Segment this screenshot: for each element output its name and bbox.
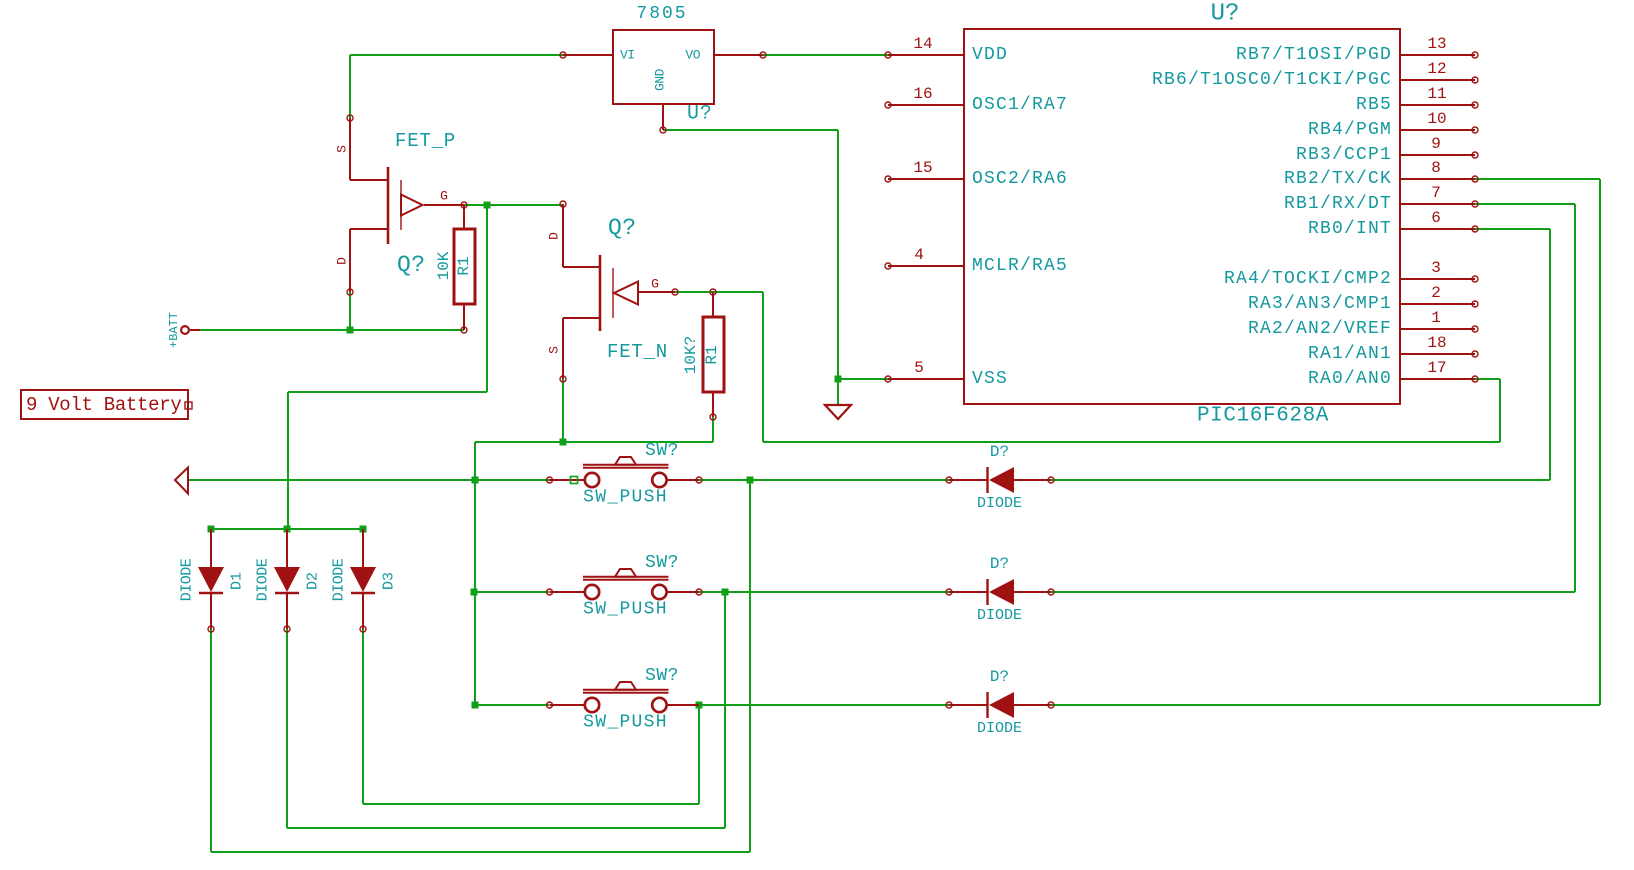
wire: [562, 379, 564, 442]
value PIC16F628A: [1197, 405, 1329, 428]
resistor R1 10K: [454, 205, 475, 333]
wire: [349, 55, 351, 118]
svg-text:DIODE: DIODE: [255, 558, 272, 601]
svg-text:SW_PUSH: SW_PUSH: [583, 488, 668, 508]
wire: [1475, 178, 1600, 180]
wire: [475, 441, 713, 443]
wire: [211, 851, 750, 853]
wire: [1574, 204, 1576, 592]
wire: [286, 629, 288, 828]
svg-text:D: D: [335, 257, 350, 265]
wire: [837, 130, 839, 379]
wire: [663, 129, 838, 131]
svg-text:RB1/RX/DT: RB1/RX/DT: [1284, 194, 1392, 214]
wire: [211, 528, 363, 530]
reference R1: [455, 256, 473, 275]
svg-text:DIODE: DIODE: [179, 558, 196, 601]
svg-text:8: 8: [1431, 159, 1441, 177]
pin 18 RA1/AN1: [1308, 334, 1478, 364]
wire: [474, 442, 476, 705]
svg-text:MCLR/RA5: MCLR/RA5: [972, 256, 1068, 276]
value 10K? (R1): [682, 336, 700, 374]
wire: [699, 479, 949, 481]
svg-text:DIODE: DIODE: [977, 495, 1022, 512]
svg-text:VO: VO: [685, 48, 700, 63]
wire: [486, 205, 488, 392]
pin 11 RB5: [1356, 85, 1478, 115]
value DIODE (D2): [255, 558, 272, 601]
junction: [560, 439, 567, 446]
diode D2: [274, 529, 300, 632]
svg-text:OSC1/RA7: OSC1/RA7: [972, 95, 1068, 115]
value DIODE #3: [977, 720, 1022, 737]
wire: [724, 592, 726, 828]
svg-text:FET_P: FET_P: [395, 130, 456, 152]
svg-text:16: 16: [913, 85, 932, 103]
junction: [484, 202, 491, 209]
svg-text:D: D: [547, 232, 562, 240]
svg-text:S: S: [335, 145, 350, 153]
svg-text:D?: D?: [990, 443, 1009, 461]
wire: [763, 54, 888, 56]
wire: [188, 479, 574, 481]
svg-text:RB2/TX/CK: RB2/TX/CK: [1284, 169, 1392, 189]
reference SW? #1: [645, 441, 679, 461]
reference SW? #2: [645, 553, 679, 573]
pin 16 OSC1/RA7: [885, 85, 1068, 115]
diode D? #2: [946, 579, 1054, 605]
wire: [349, 292, 351, 330]
transistor Q? FET_P: [335, 115, 468, 295]
svg-text:RB4/PGM: RB4/PGM: [1308, 120, 1392, 140]
svg-text:9: 9: [1431, 135, 1441, 153]
wire: [287, 392, 289, 529]
wire: [362, 629, 364, 804]
wire: [1549, 229, 1551, 480]
wire: [1475, 378, 1500, 380]
svg-text:SW_PUSH: SW_PUSH: [583, 713, 668, 733]
wire: [464, 204, 563, 206]
svg-text:RA1/AN1: RA1/AN1: [1308, 344, 1392, 364]
junction: [284, 526, 291, 533]
svg-text:10: 10: [1427, 110, 1446, 128]
text label 9 Volt Battery: [21, 390, 192, 419]
svg-text:18: 18: [1427, 334, 1446, 352]
junction: [471, 589, 478, 596]
svg-text:DIODE: DIODE: [331, 558, 348, 601]
svg-text:Q?: Q?: [397, 252, 426, 278]
IC U? PIC16F628A body: [964, 29, 1400, 404]
diode D? #3: [946, 692, 1054, 718]
wire: [200, 329, 464, 331]
svg-text:RB6/T1OSC0/T1CKI/PGC: RB6/T1OSC0/T1CKI/PGC: [1152, 70, 1392, 90]
reference D? #2: [990, 555, 1009, 573]
svg-text:1: 1: [1431, 309, 1441, 327]
svg-text:OSC2/RA6: OSC2/RA6: [972, 169, 1068, 189]
junction: [347, 327, 354, 334]
pin 14 VDD: [885, 35, 1008, 65]
reference U? (7805): [687, 103, 713, 126]
pin 8 RB2/TX/CK: [1284, 159, 1478, 189]
wire: [763, 441, 1500, 443]
pin 2 RA3/AN3/CMP1: [1248, 284, 1478, 314]
diode D3: [350, 529, 376, 632]
pin 17 RA0/AN0: [1308, 359, 1478, 389]
svg-text:U?: U?: [687, 103, 713, 126]
value 7805: [636, 4, 687, 24]
wire: [1475, 203, 1575, 205]
pin 5 VSS: [885, 359, 1008, 389]
svg-text:SW?: SW?: [645, 553, 679, 573]
resistor R1 10K?: [703, 289, 724, 420]
svg-text:G: G: [651, 277, 659, 292]
junction: [835, 376, 842, 383]
junction: [472, 477, 479, 484]
svg-text:13: 13: [1427, 35, 1446, 53]
wire: [1599, 179, 1601, 705]
value FET_N: [607, 341, 668, 363]
svg-text:DIODE: DIODE: [977, 607, 1022, 624]
wire: [698, 705, 700, 804]
svg-text:S: S: [547, 346, 562, 354]
reference D? #1: [990, 443, 1009, 461]
svg-text:RB5: RB5: [1356, 95, 1392, 115]
svg-text:2: 2: [1431, 284, 1441, 302]
svg-text:15: 15: [913, 159, 932, 177]
svg-text:VDD: VDD: [972, 45, 1008, 65]
junction: [747, 477, 754, 484]
value FET_P: [395, 130, 456, 152]
wire: [1051, 479, 1550, 481]
svg-text:VSS: VSS: [972, 369, 1008, 389]
svg-text:D?: D?: [990, 668, 1009, 686]
svg-text:D1: D1: [229, 572, 246, 590]
junction: [722, 589, 729, 596]
svg-text:10K?: 10K?: [682, 336, 700, 374]
switch SW? SW_PUSH #2: [547, 569, 703, 599]
pin 10 RB4/PGM: [1308, 110, 1478, 140]
svg-text:6: 6: [1431, 209, 1441, 227]
junction: [208, 526, 215, 533]
diode D1: [198, 529, 224, 632]
svg-text:RA2/AN2/VREF: RA2/AN2/VREF: [1248, 319, 1392, 339]
svg-text:R1: R1: [455, 256, 473, 275]
svg-text:10K: 10K: [435, 251, 453, 280]
wire: [1499, 379, 1501, 442]
pin 3 RA4/TOCKI/CMP2: [1224, 259, 1478, 289]
ground: [825, 379, 851, 419]
pin 15 OSC2/RA6: [885, 159, 1068, 189]
value 10K (R1): [435, 251, 453, 280]
wire: [749, 480, 751, 852]
reference D2: [305, 572, 322, 590]
wire: [1475, 228, 1550, 230]
wire: [699, 704, 949, 706]
svg-text:G: G: [440, 189, 448, 204]
svg-text:17: 17: [1427, 359, 1446, 377]
svg-text:RB7/T1OSI/PGD: RB7/T1OSI/PGD: [1236, 45, 1392, 65]
pin 9 RB3/CCP1: [1296, 135, 1478, 165]
svg-text:RB0/INT: RB0/INT: [1308, 219, 1392, 239]
svg-text:GND: GND: [653, 68, 668, 91]
svg-text:+BATT: +BATT: [167, 312, 181, 348]
value SW_PUSH #2: [583, 600, 668, 620]
diode D? #1: [946, 467, 1054, 493]
wire: [288, 391, 487, 393]
svg-text:U?: U?: [1211, 1, 1240, 28]
svg-text:R1: R1: [703, 345, 721, 364]
wire: [475, 704, 549, 706]
wire: [762, 292, 764, 442]
svg-text:7805: 7805: [636, 4, 687, 24]
wire: [350, 54, 563, 56]
svg-text:DIODE: DIODE: [977, 720, 1022, 737]
svg-text:PIC16F628A: PIC16F628A: [1197, 405, 1329, 428]
svg-text:D2: D2: [305, 572, 322, 590]
svg-text:FET_N: FET_N: [607, 341, 668, 363]
switch SW? SW_PUSH #3: [547, 682, 700, 712]
svg-text:9 Volt Battery: 9 Volt Battery: [26, 394, 181, 416]
pin 12 RB6/T1OSC0/T1CKI/PGC: [1152, 60, 1478, 90]
svg-text:3: 3: [1431, 259, 1441, 277]
wire: [675, 291, 763, 293]
junction: [360, 526, 367, 533]
junction: [472, 702, 479, 709]
transistor Q? FET_N: [547, 201, 679, 382]
svg-text:11: 11: [1427, 85, 1446, 103]
power port +BATT: [167, 312, 200, 348]
svg-text:7: 7: [1431, 184, 1441, 202]
value SW_PUSH #1: [583, 488, 668, 508]
pin 4 MCLR/RA5: [885, 246, 1068, 276]
node hierarchical-pin arrow: [175, 468, 188, 494]
svg-text:RA0/AN0: RA0/AN0: [1308, 369, 1392, 389]
junction: [696, 702, 703, 709]
wire: [1051, 591, 1575, 593]
switch SW? SW_PUSH #1: [547, 457, 703, 487]
svg-text:RA4/TOCKI/CMP2: RA4/TOCKI/CMP2: [1224, 269, 1392, 289]
svg-text:VI: VI: [620, 48, 635, 63]
svg-text:4: 4: [914, 246, 924, 264]
value DIODE (D3): [331, 558, 348, 601]
value DIODE #2: [977, 607, 1022, 624]
reference Q? (FET_N): [608, 215, 637, 241]
regulator U? 7805: [560, 30, 766, 133]
reference D3: [381, 572, 398, 590]
value SW_PUSH #3: [583, 713, 668, 733]
pin 7 RB1/RX/DT: [1284, 184, 1478, 214]
svg-text:SW?: SW?: [645, 666, 679, 686]
pin 13 RB7/T1OSI/PGD: [1236, 35, 1478, 65]
wire end square: [571, 477, 578, 484]
reference D1: [229, 572, 246, 590]
reference R1 (second): [703, 345, 721, 364]
wire: [699, 591, 949, 593]
svg-text:5: 5: [914, 359, 924, 377]
reference U? (PIC): [1211, 1, 1240, 28]
svg-text:D?: D?: [990, 555, 1009, 573]
pin 1 RA2/AN2/VREF: [1248, 309, 1478, 339]
svg-text:RB3/CCP1: RB3/CCP1: [1296, 145, 1392, 165]
wire: [287, 827, 725, 829]
wire: [210, 629, 212, 852]
svg-text:12: 12: [1427, 60, 1446, 78]
wire: [712, 417, 714, 442]
value DIODE #1: [977, 495, 1022, 512]
wire: [474, 591, 549, 593]
reference Q? (FET_P): [397, 252, 426, 278]
reference D? #3: [990, 668, 1009, 686]
svg-text:SW?: SW?: [645, 441, 679, 461]
svg-text:D3: D3: [381, 572, 398, 590]
svg-text:SW_PUSH: SW_PUSH: [583, 600, 668, 620]
reference SW? #3: [645, 666, 679, 686]
value DIODE (D1): [179, 558, 196, 601]
svg-text:14: 14: [913, 35, 932, 53]
wire: [838, 378, 888, 380]
wire: [363, 803, 699, 805]
wire: [1051, 704, 1600, 706]
svg-text:RA3/AN3/CMP1: RA3/AN3/CMP1: [1248, 294, 1392, 314]
pin 6 RB0/INT: [1308, 209, 1478, 239]
svg-text:Q?: Q?: [608, 215, 637, 241]
